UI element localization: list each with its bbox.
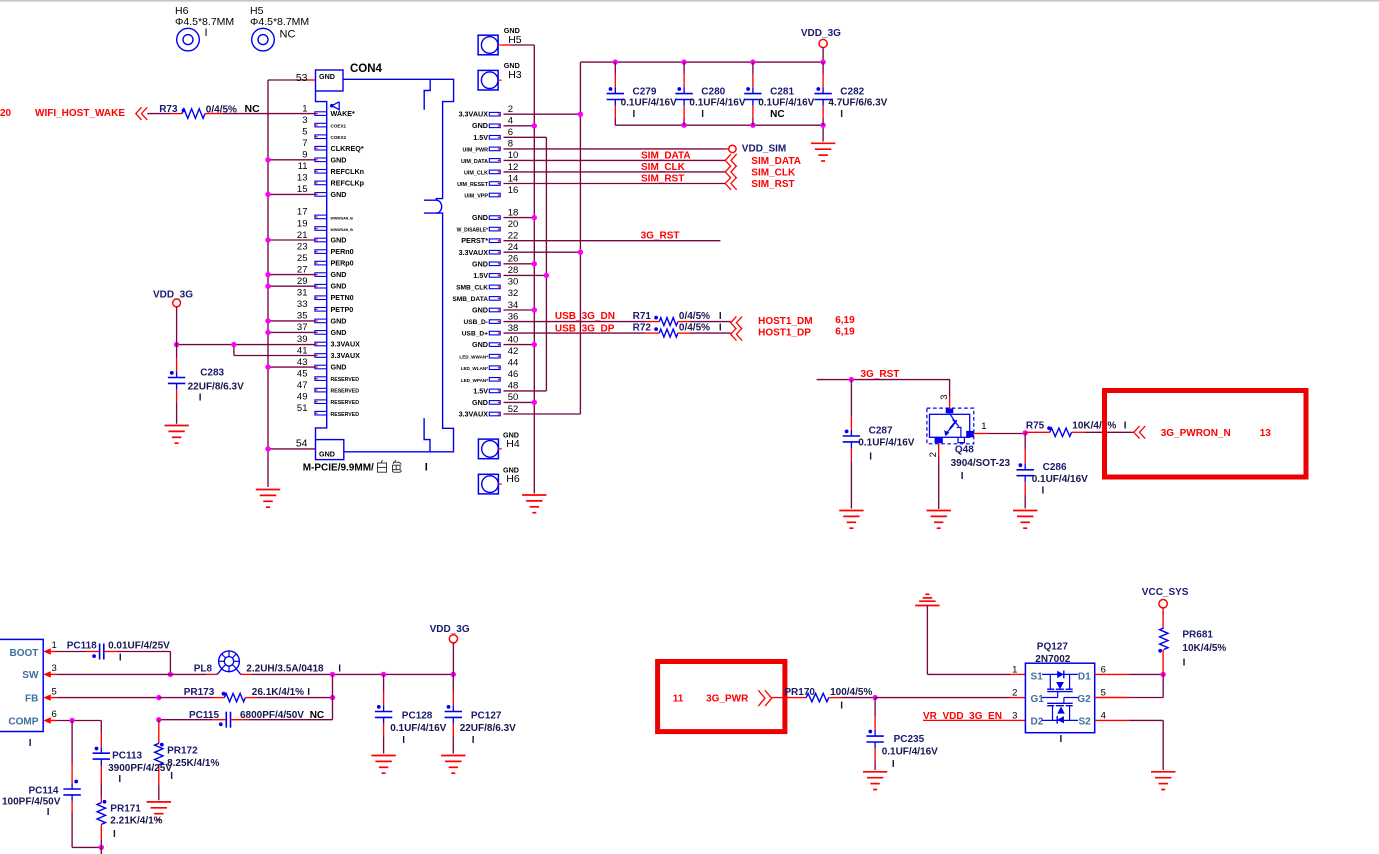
- svg-text:GND: GND: [331, 282, 347, 291]
- svg-text:UIM_CLK: UIM_CLK: [464, 170, 488, 176]
- svg-text:R71: R71: [633, 311, 652, 322]
- svg-text:11: 11: [673, 694, 684, 705]
- svg-text:45: 45: [297, 368, 308, 379]
- svg-text:USB_D+: USB_D+: [462, 331, 488, 338]
- svg-text:PETN0: PETN0: [331, 293, 354, 302]
- svg-text:WIFI_HOST_WAKE: WIFI_HOST_WAKE: [35, 108, 125, 119]
- svg-text:40: 40: [508, 334, 519, 345]
- svg-text:7: 7: [302, 138, 307, 149]
- svg-text:REFCLKp: REFCLKp: [331, 178, 365, 187]
- svg-text:C287: C287: [869, 426, 893, 437]
- svg-text:32: 32: [508, 288, 519, 299]
- svg-text:20: 20: [508, 219, 519, 230]
- svg-text:I: I: [1183, 658, 1186, 669]
- svg-text:RESERVED: RESERVED: [331, 389, 360, 395]
- svg-text:I: I: [869, 451, 872, 462]
- svg-text:3.3VAUX: 3.3VAUX: [331, 351, 361, 360]
- svg-text:0/4/5%: 0/4/5%: [206, 105, 237, 116]
- svg-text:UIM_RESET: UIM_RESET: [457, 182, 489, 188]
- svg-text:43: 43: [297, 357, 308, 368]
- svg-text:HOST1_DP: HOST1_DP: [758, 327, 811, 338]
- svg-text:Φ4.5*8.7MM: Φ4.5*8.7MM: [175, 16, 234, 28]
- svg-text:GND: GND: [331, 328, 347, 337]
- svg-text:6: 6: [508, 127, 513, 138]
- svg-text:GND: GND: [472, 213, 488, 222]
- svg-text:51: 51: [297, 403, 308, 414]
- svg-text:54: 54: [296, 438, 308, 450]
- svg-text:PL8: PL8: [194, 663, 213, 674]
- svg-text:I: I: [118, 774, 121, 785]
- svg-text:M-PCIE/9.9MM/: M-PCIE/9.9MM/: [303, 462, 374, 473]
- svg-text:RESERVED: RESERVED: [331, 377, 360, 383]
- svg-text:2.21K/4/1%: 2.21K/4/1%: [110, 816, 162, 827]
- svg-text:3G_PWR: 3G_PWR: [706, 694, 749, 705]
- svg-text:PERp0: PERp0: [331, 259, 354, 268]
- svg-text:I: I: [205, 27, 208, 39]
- svg-text:PR681: PR681: [1182, 630, 1213, 641]
- svg-text:2: 2: [928, 452, 939, 457]
- svg-text:G1: G1: [1031, 694, 1045, 705]
- svg-text:I: I: [113, 829, 116, 840]
- svg-text:0.1UF/4/16V: 0.1UF/4/16V: [758, 97, 814, 108]
- svg-text:1.5V: 1.5V: [473, 133, 488, 142]
- svg-text:COEX1: COEX1: [331, 124, 347, 129]
- svg-text:PETP0: PETP0: [331, 305, 354, 314]
- svg-text:0.1UF/4/16V: 0.1UF/4/16V: [390, 723, 446, 734]
- svg-text:D1: D1: [1078, 672, 1091, 683]
- svg-text:21: 21: [297, 230, 308, 241]
- svg-text:PR172: PR172: [167, 745, 198, 756]
- svg-text:SMB_DATA: SMB_DATA: [452, 296, 488, 303]
- svg-text:49: 49: [297, 392, 308, 403]
- svg-text:28: 28: [508, 265, 519, 276]
- svg-text:COMP: COMP: [8, 716, 38, 727]
- svg-text:52: 52: [508, 404, 519, 415]
- svg-text:1: 1: [1012, 664, 1017, 675]
- svg-text:I: I: [892, 759, 895, 770]
- svg-text:50: 50: [508, 392, 519, 403]
- svg-text:10: 10: [508, 150, 519, 161]
- svg-text:R75: R75: [1026, 421, 1045, 432]
- svg-text:0.1UF/4/16V: 0.1UF/4/16V: [1032, 474, 1088, 485]
- svg-text:2.2UH/3.5A/0418: 2.2UH/3.5A/0418: [246, 663, 324, 674]
- svg-text:GND: GND: [331, 155, 347, 164]
- svg-text:6,19: 6,19: [835, 315, 855, 326]
- svg-text:S1: S1: [1031, 672, 1044, 683]
- svg-text:NC: NC: [245, 103, 261, 115]
- svg-text:4: 4: [508, 116, 513, 127]
- svg-text:SMB_CLK: SMB_CLK: [456, 284, 488, 291]
- svg-text:HOST1_DM: HOST1_DM: [758, 316, 812, 327]
- svg-text:REFCLKn: REFCLKn: [331, 167, 365, 176]
- svg-text:PERST*: PERST*: [461, 236, 488, 245]
- svg-text:GND: GND: [472, 259, 488, 268]
- svg-text:PQ127: PQ127: [1037, 642, 1069, 653]
- svg-text:I: I: [119, 653, 122, 664]
- svg-text:3.3VAUX: 3.3VAUX: [459, 410, 489, 419]
- svg-text:PC114: PC114: [28, 786, 58, 797]
- svg-text:3.3VAUX: 3.3VAUX: [459, 110, 489, 119]
- svg-text:I: I: [199, 393, 202, 404]
- svg-text:GND: GND: [319, 72, 335, 81]
- svg-text:37: 37: [297, 322, 308, 333]
- svg-text:3: 3: [52, 663, 57, 674]
- svg-text:PC128: PC128: [402, 711, 433, 722]
- svg-text:NC: NC: [310, 710, 324, 721]
- svg-text:UIM_DATA: UIM_DATA: [461, 159, 488, 165]
- svg-text:I: I: [472, 735, 475, 746]
- svg-text:GND: GND: [331, 363, 347, 372]
- svg-text:SW: SW: [22, 670, 39, 681]
- svg-text:0.1UF/4/16V: 0.1UF/4/16V: [882, 747, 938, 758]
- svg-text:C282: C282: [840, 86, 864, 97]
- svg-text:UIM_VPP: UIM_VPP: [464, 194, 488, 200]
- svg-text:Φ4.5*8.7MM: Φ4.5*8.7MM: [250, 16, 309, 28]
- svg-text:3.3VAUX: 3.3VAUX: [459, 248, 489, 257]
- svg-text:6800PF/4/50V: 6800PF/4/50V: [240, 710, 304, 721]
- svg-text:5: 5: [52, 686, 57, 697]
- svg-text:1.5V: 1.5V: [473, 271, 488, 280]
- svg-text:H4: H4: [506, 438, 520, 450]
- svg-text:GND: GND: [472, 340, 488, 349]
- svg-text:VCC_SYS: VCC_SYS: [1142, 587, 1189, 598]
- svg-text:100/4/5%: 100/4/5%: [830, 687, 872, 698]
- svg-text:GND: GND: [331, 316, 347, 325]
- svg-text:13: 13: [1260, 428, 1272, 439]
- svg-text:3: 3: [939, 395, 950, 400]
- svg-text:24: 24: [508, 242, 519, 253]
- svg-text:PC235: PC235: [894, 734, 925, 745]
- svg-text:COEX2: COEX2: [331, 135, 347, 140]
- svg-text:48: 48: [508, 381, 519, 392]
- svg-text:53: 53: [296, 72, 308, 84]
- svg-text:I: I: [719, 311, 722, 322]
- svg-text:46: 46: [508, 369, 519, 380]
- svg-text:D2: D2: [1031, 717, 1044, 728]
- svg-text:1: 1: [52, 640, 57, 651]
- svg-text:29: 29: [297, 276, 308, 287]
- svg-text:C279: C279: [633, 86, 657, 97]
- svg-text:I: I: [338, 663, 341, 674]
- svg-text:22UF/8/6.3V: 22UF/8/6.3V: [460, 723, 516, 734]
- svg-text:I: I: [701, 109, 704, 120]
- svg-text:26: 26: [508, 254, 519, 265]
- svg-text:I: I: [47, 807, 50, 818]
- svg-text:25: 25: [297, 253, 308, 264]
- svg-text:3904/SOT-23: 3904/SOT-23: [951, 458, 1011, 469]
- svg-text:35: 35: [297, 311, 308, 322]
- svg-text:47: 47: [297, 380, 308, 391]
- svg-text:SIM_RST: SIM_RST: [751, 179, 794, 190]
- svg-text:GND: GND: [331, 270, 347, 279]
- svg-text:GND: GND: [472, 398, 488, 407]
- svg-text:NC: NC: [770, 109, 784, 120]
- svg-text:0.1UF/4/16V: 0.1UF/4/16V: [858, 437, 914, 448]
- svg-text:100PF/4/50V: 100PF/4/50V: [2, 797, 61, 808]
- svg-text:1.5V: 1.5V: [473, 386, 488, 395]
- svg-text:42: 42: [508, 346, 519, 357]
- svg-text:3: 3: [302, 115, 307, 126]
- svg-text:I: I: [1060, 734, 1063, 745]
- svg-text:PC115: PC115: [189, 710, 219, 721]
- svg-text:GND: GND: [319, 449, 335, 458]
- svg-text:15: 15: [297, 184, 308, 195]
- svg-text:5: 5: [302, 127, 307, 138]
- svg-text:WAKE*: WAKE*: [331, 109, 356, 118]
- svg-text:16: 16: [508, 185, 519, 196]
- svg-text:12: 12: [508, 162, 519, 173]
- svg-text:LED_WPAN*: LED_WPAN*: [461, 378, 488, 383]
- svg-text:0/4/5%: 0/4/5%: [679, 311, 710, 322]
- svg-text:CON4: CON4: [350, 63, 383, 75]
- svg-text:G2: G2: [1077, 694, 1091, 705]
- svg-text:3G_RST: 3G_RST: [861, 369, 900, 380]
- svg-text:UIM_PWR: UIM_PWR: [463, 147, 489, 153]
- svg-text:6: 6: [52, 709, 57, 720]
- svg-text:PC127: PC127: [471, 711, 502, 722]
- svg-text:SIM_CLK: SIM_CLK: [641, 162, 686, 173]
- svg-text:8.25K/4/1%: 8.25K/4/1%: [167, 758, 219, 769]
- svg-text:VDD_3G: VDD_3G: [430, 624, 470, 635]
- svg-text:22UF/8/6.3V: 22UF/8/6.3V: [188, 381, 244, 392]
- svg-text:38: 38: [508, 323, 519, 334]
- svg-text:I: I: [633, 109, 636, 120]
- svg-text:PERn0: PERn0: [331, 247, 354, 256]
- svg-text:BOOT: BOOT: [10, 648, 39, 659]
- svg-text:4.7UF/6/6.3V: 4.7UF/6/6.3V: [828, 97, 887, 108]
- svg-text:SIM_CLK: SIM_CLK: [751, 168, 796, 179]
- svg-text:RESERVED: RESERVED: [331, 400, 360, 406]
- svg-text:S2: S2: [1078, 717, 1091, 728]
- svg-text:VDD_3G: VDD_3G: [153, 289, 193, 300]
- svg-text:36: 36: [508, 311, 519, 322]
- svg-text:C283: C283: [200, 367, 224, 378]
- svg-text:I: I: [840, 701, 843, 712]
- svg-text:C281: C281: [770, 86, 794, 97]
- svg-text:26.1K/4/1%: 26.1K/4/1%: [252, 687, 304, 698]
- svg-text:2: 2: [1012, 688, 1017, 699]
- svg-text:I: I: [719, 323, 722, 334]
- svg-text:H5: H5: [508, 34, 522, 46]
- svg-text:PR171: PR171: [110, 804, 141, 815]
- svg-text:W_DISABLE*: W_DISABLE*: [457, 228, 488, 234]
- svg-text:19: 19: [297, 218, 308, 229]
- svg-text:WWWSAN_B: WWWSAN_B: [331, 228, 354, 232]
- svg-text:I: I: [425, 461, 428, 473]
- svg-text:I: I: [29, 738, 32, 749]
- svg-text:10K/4/5%: 10K/4/5%: [1182, 643, 1226, 654]
- svg-text:6,19: 6,19: [835, 327, 855, 338]
- svg-text:3.3VAUX: 3.3VAUX: [331, 340, 361, 349]
- svg-text:34: 34: [508, 300, 519, 311]
- svg-text:39: 39: [297, 334, 308, 345]
- svg-text:1: 1: [302, 103, 307, 114]
- svg-text:VDD_3G: VDD_3G: [801, 28, 841, 39]
- svg-text:LED_WWAN*: LED_WWAN*: [459, 355, 488, 360]
- svg-text:RESERVED: RESERVED: [331, 412, 360, 418]
- svg-text:30: 30: [508, 277, 519, 288]
- svg-text:GND: GND: [331, 190, 347, 199]
- svg-text:PR173: PR173: [184, 687, 215, 698]
- svg-text:41: 41: [297, 345, 308, 356]
- svg-text:SIM_RST: SIM_RST: [641, 174, 684, 185]
- svg-text:Q48: Q48: [955, 444, 974, 455]
- svg-text:44: 44: [508, 358, 519, 369]
- svg-text:SIM_DATA: SIM_DATA: [751, 156, 801, 167]
- svg-text:H6: H6: [506, 473, 520, 485]
- svg-text:R72: R72: [633, 323, 652, 334]
- svg-text:1: 1: [981, 421, 986, 432]
- svg-text:8: 8: [508, 139, 513, 150]
- svg-text:3: 3: [1012, 710, 1017, 721]
- svg-text:33: 33: [297, 299, 308, 310]
- svg-text:3G_RST: 3G_RST: [641, 230, 680, 241]
- svg-text:GND: GND: [472, 306, 488, 315]
- svg-text:I: I: [840, 109, 843, 120]
- svg-text:0.01UF/4/25V: 0.01UF/4/25V: [108, 640, 170, 651]
- svg-text:C286: C286: [1043, 462, 1067, 473]
- svg-text:USB_3G_DP: USB_3G_DP: [555, 323, 615, 334]
- svg-text:18: 18: [508, 207, 519, 218]
- svg-text:I: I: [1124, 421, 1127, 432]
- svg-text:USB_3G_DN: USB_3G_DN: [555, 311, 615, 322]
- svg-text:0/4/5%: 0/4/5%: [679, 323, 710, 334]
- svg-text:PC113: PC113: [112, 751, 142, 762]
- svg-text:14: 14: [508, 173, 519, 184]
- svg-text:11: 11: [298, 161, 308, 172]
- svg-text:USB_D-: USB_D-: [463, 319, 488, 326]
- svg-text:20: 20: [0, 108, 12, 119]
- svg-text:27: 27: [297, 264, 308, 275]
- svg-text:WWWSAN_B: WWWSAN_B: [331, 216, 354, 220]
- svg-text:17: 17: [297, 207, 308, 218]
- svg-text:NC: NC: [280, 29, 296, 41]
- svg-text:3900PF/4/25V: 3900PF/4/25V: [108, 763, 172, 774]
- svg-text:0.1UF/4/16V: 0.1UF/4/16V: [689, 97, 745, 108]
- svg-text:0.1UF/4/16V: 0.1UF/4/16V: [621, 97, 677, 108]
- svg-text:GND: GND: [331, 236, 347, 245]
- svg-text:31: 31: [297, 288, 308, 299]
- svg-text:13: 13: [297, 173, 308, 184]
- svg-text:22: 22: [508, 231, 519, 242]
- svg-text:I: I: [402, 735, 405, 746]
- svg-text:C280: C280: [701, 86, 725, 97]
- svg-text:VR_VDD_3G_EN: VR_VDD_3G_EN: [923, 711, 1002, 722]
- svg-text:23: 23: [297, 241, 308, 252]
- svg-text:PR170: PR170: [784, 687, 815, 698]
- svg-text:SIM_DATA: SIM_DATA: [641, 151, 691, 162]
- svg-text:VDD_SIM: VDD_SIM: [742, 144, 786, 155]
- svg-text:I: I: [961, 471, 964, 482]
- svg-text:LED_WLAN*: LED_WLAN*: [461, 366, 489, 371]
- svg-text:H3: H3: [508, 69, 522, 81]
- svg-text:CLKREQ*: CLKREQ*: [331, 144, 364, 153]
- svg-text:I: I: [307, 687, 310, 698]
- svg-text:2: 2: [508, 104, 513, 115]
- svg-text:PC118: PC118: [67, 640, 97, 651]
- svg-text:I: I: [1042, 486, 1045, 497]
- svg-text:R73: R73: [159, 104, 178, 115]
- svg-text:3G_PWRON_N: 3G_PWRON_N: [1161, 428, 1231, 439]
- svg-text:GND: GND: [472, 121, 488, 130]
- svg-text:9: 9: [302, 150, 307, 161]
- svg-text:10K/4/1%: 10K/4/1%: [1072, 421, 1116, 432]
- svg-text:FB: FB: [25, 693, 38, 704]
